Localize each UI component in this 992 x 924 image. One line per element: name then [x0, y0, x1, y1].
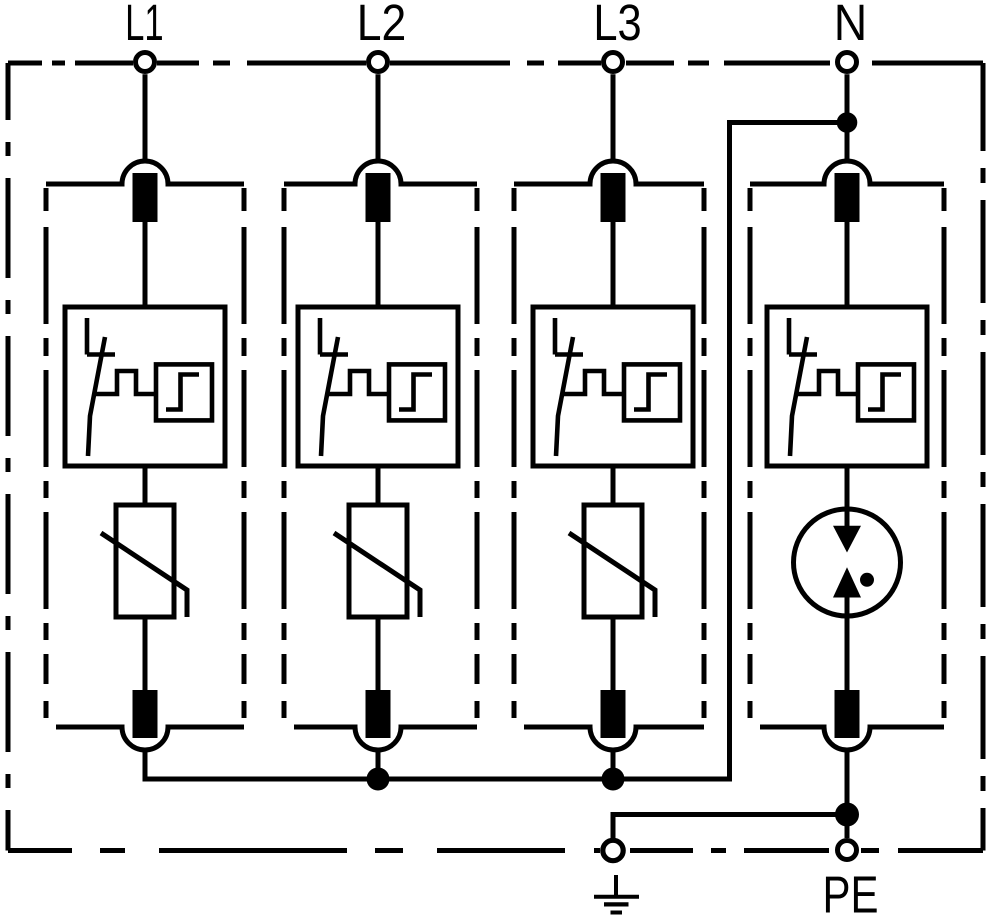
upper plug-in disconnect contact L2 (black pin)	[366, 173, 391, 222]
wire L2 disconnector to varistor	[376, 466, 381, 505]
thermal disconnector L1: thermal sensing link (stepped)	[95, 371, 156, 394]
spark gap trigger dot	[860, 573, 874, 587]
thermal disconnector L2: switch blade	[321, 337, 338, 456]
thermal disconnector L2: step-function glyph	[399, 375, 432, 410]
spark gap lower electrode arrow	[833, 567, 861, 597]
thermal disconnector (L2 module) outer box	[298, 307, 458, 466]
outer dash-dot equipment boundary: bottom edge	[8, 848, 983, 853]
wire N spark gap to lower contact	[845, 598, 850, 691]
module L2 dashed enclosure: top edge with plug-contact recess	[284, 161, 477, 184]
thermal disconnector L1: step-function glyph	[166, 375, 199, 410]
varistor (L1 module) body	[116, 505, 174, 617]
module L1 dashed enclosure: top edge with plug-contact recess	[46, 161, 244, 184]
earth terminal	[603, 840, 623, 860]
svg-text:N: N	[834, 0, 868, 51]
terminal L1	[136, 53, 155, 72]
varistor (L3 module) diagonal stroke	[569, 533, 655, 617]
module L1 dashed enclosure: left edge	[44, 188, 49, 718]
wire N contact to thermal disconnector	[845, 221, 850, 307]
module N dashed enclosure: top edge with plug-contact recess	[750, 161, 944, 184]
lower plug-in disconnect contact L2 (black pin)	[366, 690, 391, 738]
thermal disconnector L3: thermal sensing link (stepped)	[563, 371, 624, 394]
spark gap (N-PE) circle	[794, 509, 901, 616]
upper plug-in disconnect contact L1 (black pin)	[133, 173, 158, 222]
module L2 dashed enclosure: right edge	[475, 188, 480, 718]
lower plug-in disconnect contact L1 (black pin)	[133, 690, 158, 738]
terminal L2	[369, 53, 388, 72]
varistor (L3 module) body	[584, 505, 642, 617]
thermal disconnector (L3 module) outer box	[533, 307, 693, 466]
thermal disconnector L3: switch fixed contact	[555, 318, 583, 355]
terminal N	[838, 53, 857, 72]
thermal disconnector L3: trip element box	[624, 364, 680, 420]
thermal disconnector N: thermal sensing link (stepped)	[797, 371, 858, 394]
thermal disconnector N: step-function glyph	[868, 375, 901, 410]
thermal disconnector L1: switch fixed contact	[87, 318, 115, 355]
wire L3 terminal to upper plug contact	[611, 74, 616, 162]
module L2 dashed enclosure: bottom edge with plug-contact recess	[294, 727, 477, 750]
module L3 dashed enclosure: bottom edge with plug-contact recess	[524, 727, 704, 750]
terminal L3	[604, 53, 623, 72]
module N dashed enclosure: left edge	[748, 188, 753, 718]
wire L2 terminal to upper plug contact	[376, 74, 381, 162]
wire L1 terminal to upper plug contact	[143, 74, 148, 162]
thermal disconnector L3: step-function glyph	[634, 375, 667, 410]
varistor (L1 module) diagonal stroke	[101, 533, 187, 617]
thermal disconnector (N module) outer box	[767, 307, 927, 466]
spark gap upper electrode arrow	[833, 526, 861, 553]
thermal disconnector N: switch blade	[790, 337, 807, 456]
outer dash-dot equipment boundary: top edge	[8, 61, 983, 66]
wire PE junction to earth terminal	[613, 815, 847, 839]
thermal disconnector L1: switch blade	[88, 337, 105, 456]
wire L3 varistor to lower contact	[611, 617, 616, 690]
wire L3 contact to thermal disconnector	[611, 221, 616, 307]
module L3 dashed enclosure: top edge with plug-contact recess	[514, 161, 704, 184]
module N dashed enclosure: bottom edge with plug-contact recess	[760, 727, 944, 750]
module L1 dashed enclosure: right edge	[242, 188, 247, 718]
node N label	[834, 0, 868, 51]
thermal disconnector (L1 module) outer box	[65, 307, 225, 466]
wire L2 varistor to lower contact	[376, 617, 381, 690]
ground symbol bar 2	[604, 902, 629, 906]
junction dot: L2 at bus	[367, 768, 390, 791]
thermal disconnector L3: switch blade	[556, 337, 573, 456]
junction dot: L3 at bus	[602, 768, 625, 791]
module L1 dashed enclosure: bottom edge with plug-contact recess	[56, 727, 244, 750]
module L2 dashed enclosure: left edge	[282, 188, 287, 718]
varistor (L2 module) body	[349, 505, 407, 617]
wire N lower contact down to PE terminal	[845, 750, 850, 838]
module L3 dashed enclosure: right edge	[702, 188, 707, 718]
ground symbol stem	[614, 875, 618, 897]
svg-text:L3: L3	[593, 0, 641, 51]
wire L1 varistor to lower contact	[143, 617, 148, 690]
wire N terminal to upper plug contact	[845, 74, 850, 162]
junction dot: N-PE lower	[835, 803, 859, 827]
wire N disconnector to spark gap	[845, 466, 850, 528]
node PE label	[823, 867, 879, 924]
thermal disconnector L2: trip element box	[389, 364, 445, 420]
svg-text:PE: PE	[823, 867, 879, 924]
ground symbol bar 1	[594, 895, 639, 899]
lower plug-in disconnect contact N (black pin)	[835, 690, 860, 738]
module N dashed enclosure: right edge	[942, 188, 947, 718]
wire L2 contact to thermal disconnector	[376, 221, 381, 307]
upper plug-in disconnect contact L3 (black pin)	[601, 173, 626, 222]
thermal disconnector L2: thermal sensing link (stepped)	[328, 371, 389, 394]
lower plug-in disconnect contact L3 (black pin)	[601, 690, 626, 738]
outer dash-dot equipment boundary: right edge	[981, 63, 986, 851]
outer dash-dot equipment boundary: left edge	[6, 63, 11, 851]
node L2 label	[357, 0, 407, 51]
wire: common lower bus from L1 via L2, L3 up to N junction	[145, 123, 847, 780]
svg-text:L2: L2	[357, 0, 407, 51]
junction dot: N upper (bus tap)	[837, 112, 858, 133]
wire L2 lower contact to bus	[376, 750, 381, 779]
upper plug-in disconnect contact N (black pin)	[835, 173, 860, 222]
thermal disconnector N: switch fixed contact	[789, 318, 817, 355]
terminal PE	[838, 841, 857, 860]
node L1 label	[125, 0, 164, 51]
wire L1 disconnector to varistor	[143, 466, 148, 505]
svg-text:L1: L1	[125, 0, 164, 51]
ground symbol bar 3	[611, 911, 623, 915]
node L3 label	[593, 0, 641, 51]
wire L3 lower contact to bus	[611, 750, 616, 779]
wire L3 disconnector to varistor	[611, 466, 616, 505]
thermal disconnector L1: trip element box	[156, 364, 212, 420]
wire L1 contact to thermal disconnector	[143, 221, 148, 307]
thermal disconnector N: trip element box	[858, 364, 914, 420]
varistor (L2 module) diagonal stroke	[334, 533, 420, 617]
thermal disconnector L2: switch fixed contact	[320, 318, 348, 355]
module L3 dashed enclosure: left edge	[512, 188, 517, 718]
